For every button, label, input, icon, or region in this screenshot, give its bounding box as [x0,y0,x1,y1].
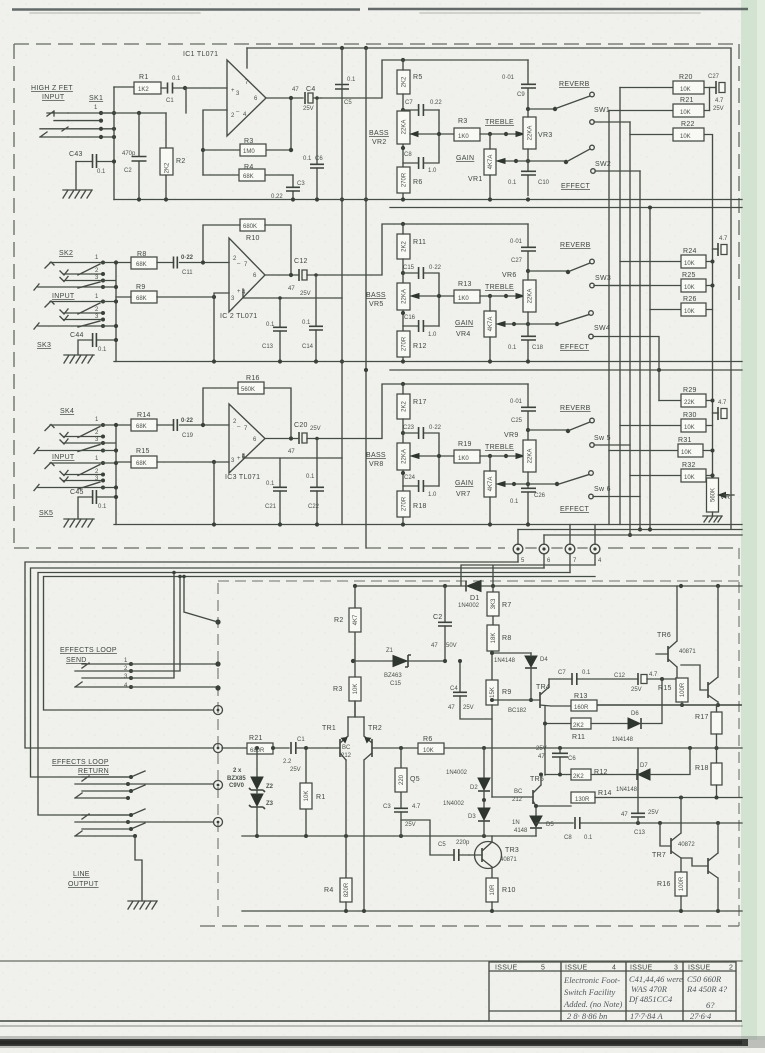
svg-text:47: 47 [538,754,545,760]
svg-text:REVERB: REVERB [559,81,590,88]
svg-text:47: 47 [288,286,295,292]
wire vertical feed x609 [608,111,610,525]
switch SW4 [559,315,589,325]
frame: separator dashed line between sections [14,547,739,549]
svg-text:C4: C4 [306,86,316,93]
frame: upper section dashed border [14,43,738,45]
resistor R5b 220R [400,748,402,808]
svg-text:40871: 40871 [500,857,517,863]
svg-text:0.1: 0.1 [98,347,107,353]
svg-text:EFFECT: EFFECT [560,344,589,351]
svg-text:C18: C18 [532,345,544,351]
svg-text:4.7: 4.7 [715,98,724,104]
svg-text:R17: R17 [695,714,709,721]
svg-text:C23: C23 [403,425,415,431]
svg-text:10K: 10K [353,684,359,695]
svg-text:BC: BC [514,789,523,795]
svg-text:TREBLE: TREBLE [485,444,514,451]
svg-text:R18: R18 [413,503,427,510]
svg-text:C19: C19 [182,433,194,439]
node module b [215,661,220,666]
svg-text:SW1: SW1 [594,107,610,114]
title block frame [489,962,736,1021]
svg-text:SK4: SK4 [60,408,74,415]
svg-text:1K0: 1K0 [458,134,469,140]
svg-text:4.7: 4.7 [649,672,658,678]
wire reverb bus line [518,529,742,531]
svg-text:Switch Facility: Switch Facility [564,987,615,997]
svg-text:TREBLE: TREBLE [485,284,514,291]
svg-text:220: 220 [399,774,405,785]
svg-text:2: 2 [729,965,733,972]
svg-text:47: 47 [292,87,299,93]
svg-text:1N4148: 1N4148 [612,737,634,743]
svg-text:22KA: 22KA [402,289,408,304]
svg-text:25V: 25V [648,810,659,816]
svg-text:BZ463: BZ463 [384,673,402,679]
svg-text:27·6·4: 27·6·4 [690,1011,712,1021]
svg-text:4.7: 4.7 [719,236,728,242]
svg-text:17·7·84 A: 17·7·84 A [630,1011,663,1021]
svg-text:68K: 68K [243,174,254,180]
svg-text:2K2: 2K2 [402,401,408,412]
svg-text:270R: 270R [402,336,408,351]
wire bus line d [38,573,570,816]
svg-text:TR6: TR6 [657,632,671,639]
svg-text:BC182: BC182 [508,708,527,714]
connector circle p1 [214,706,223,715]
svg-text:25V: 25V [463,705,474,711]
svg-text:R11: R11 [413,239,426,246]
wire vertical feed x650 [649,208,651,530]
svg-text:C13: C13 [262,344,274,350]
capacitor C3b 4.7/25V [394,808,408,812]
wire vertical feed x630 [629,122,631,535]
wire D4 feed [492,651,531,680]
svg-text:TR1: TR1 [322,725,336,732]
svg-text:C15: C15 [390,681,402,687]
svg-text:R3: R3 [333,686,343,693]
svg-text:R14: R14 [137,412,151,419]
wire pin4 line ch3 [243,454,342,458]
svg-text:C50 660R: C50 660R [687,974,722,984]
wire row1 rail [101,112,166,114]
connector circle p2 [214,744,223,753]
svg-text:GAIN: GAIN [455,320,473,327]
wire VR9 bottom [527,472,529,488]
svg-text:C45: C45 [70,489,84,496]
svg-text:ISSUE: ISSUE [630,965,653,972]
svg-text:2K2: 2K2 [402,241,408,252]
svg-text:3: 3 [674,965,678,972]
wire to op-amp +in [185,88,227,113]
svg-text:R31: R31 [678,437,692,444]
wire to SW3 [528,270,566,272]
wire return to module circles [128,821,213,823]
svg-text:+: + [237,456,241,462]
svg-text:10K: 10K [681,450,692,456]
svg-text:1.0: 1.0 [428,492,437,498]
svg-text:4K7A: 4K7A [488,155,494,170]
svg-text:Electronic Foot-: Electronic Foot- [563,975,620,985]
svg-text:68K: 68K [136,461,147,467]
svg-text:0·01: 0·01 [510,239,523,245]
resistor R9b [486,680,498,705]
resistor R1b 10K [305,748,307,836]
svg-text:C3: C3 [383,804,391,810]
wire input bus vertical [113,87,115,200]
svg-text:4K7: 4K7 [353,614,359,625]
svg-text:1N: 1N [512,820,520,826]
svg-text:D7: D7 [640,763,648,769]
svg-text:0·22: 0·22 [181,418,194,424]
wire to SW1 [528,108,553,110]
resistor R12 [397,331,410,357]
svg-text:IC1 TL071: IC1 TL071 [183,51,218,58]
svg-text:C10: C10 [538,180,550,186]
svg-text:22KA: 22KA [528,449,534,464]
wire feedback loop ch3 [203,388,291,439]
svg-text:R10: R10 [246,235,260,242]
svg-text:4.7: 4.7 [718,400,727,406]
node A [183,86,187,90]
svg-text:0·22: 0·22 [429,265,442,271]
svg-text:IC 2 TL071: IC 2 TL071 [220,313,258,320]
svg-text:C22: C22 [308,504,320,510]
svg-text:R26: R26 [683,296,697,303]
capacitor C26 [527,493,529,525]
connector pin 6 [543,535,545,568]
jack J2b [34,301,101,329]
svg-text:C11: C11 [182,270,193,276]
svg-text:0·22: 0·22 [429,425,442,431]
svg-text:Df 4851CC4: Df 4851CC4 [628,994,673,1004]
svg-text:25V: 25V [310,426,321,432]
wire feedback loop ch2 [203,225,291,275]
svg-text:1N4002: 1N4002 [458,603,480,609]
svg-text:SK5: SK5 [39,510,53,517]
wire jack bus ch2 [103,263,131,362]
svg-text:D3: D3 [468,814,476,820]
capacitor C21 [279,458,281,525]
diode D2 1N4002 [483,748,485,778]
svg-text:GAIN: GAIN [455,480,473,487]
capacitor C18 [527,341,529,362]
switch SW2 [564,160,568,164]
svg-text:25V: 25V [405,822,416,828]
svg-text:VR8: VR8 [369,461,384,468]
svg-text:47: 47 [431,643,438,649]
svg-text:68K: 68K [136,424,147,430]
wire output ch2 [265,224,528,275]
resistor R7 [492,586,494,625]
capacitor C27 0.01 [527,224,529,280]
svg-text:212: 212 [341,753,352,759]
svg-text:Sw 5: Sw 5 [594,435,611,442]
svg-text:47: 47 [448,705,455,711]
wire line output to ground [135,836,142,901]
capacitor C12b 4.7/25V [637,673,639,685]
resistor R11 [397,234,410,259]
svg-text:0.1: 0.1 [306,474,315,480]
svg-text:C15: C15 [403,265,415,271]
jack J5a return (switched) [75,776,131,798]
svg-text:1K2: 1K2 [138,87,149,93]
svg-text:C8: C8 [564,835,572,841]
svg-text:10K: 10K [684,309,695,315]
svg-text:R22: R22 [681,121,695,128]
svg-text:OUTPUT: OUTPUT [68,881,99,888]
right green scan band [741,0,765,1040]
svg-text:R15: R15 [136,448,150,455]
resistor R10 680K [240,219,265,231]
svg-text:C41,44,46 were: C41,44,46 were [629,974,683,984]
svg-text:5: 5 [541,965,545,972]
svg-text:130R: 130R [575,797,590,803]
capacitor C1 [161,87,185,89]
resistor R10c 10R [486,878,498,902]
svg-text:10K: 10K [680,110,691,116]
svg-text:C16: C16 [404,315,416,321]
svg-text:R3: R3 [458,118,468,125]
svg-text:1.0: 1.0 [428,332,437,338]
svg-text:C27: C27 [511,258,523,264]
svg-text:R21: R21 [680,97,694,104]
node module a [215,619,220,624]
jack J3b switch levers [78,465,100,490]
svg-text:40871: 40871 [679,649,696,655]
svg-text:VR4: VR4 [456,331,471,338]
svg-text:10K: 10K [680,87,691,93]
wire VR3 bottom to effect node [527,149,529,171]
svg-text:47: 47 [621,812,628,818]
svg-text:C2: C2 [124,168,132,174]
svg-text:22K: 22K [684,400,695,406]
svg-text:R32: R32 [682,462,696,469]
svg-text:R18: R18 [695,765,709,772]
svg-text:C8: C8 [404,152,412,158]
svg-text:Z3: Z3 [266,801,274,807]
wire -in feedback [203,110,227,175]
node module c [215,685,220,690]
zener Z3 [251,794,263,806]
svg-text:1K0: 1K0 [458,456,469,462]
svg-text:R25: R25 [682,272,696,279]
capacitor C7b 0.1 [549,678,638,680]
resistor R4c 820R [345,760,347,878]
wire emitters join [348,701,364,717]
wire pin7 supply stub [246,48,248,68]
svg-text:0.1: 0.1 [266,481,275,487]
svg-text:R17: R17 [413,399,427,406]
diode D6 1N4148 [628,718,640,729]
svg-text:0.1: 0.1 [510,499,519,505]
wire output line [321,60,528,98]
svg-text:TR5: TR5 [530,776,544,783]
svg-text:C5: C5 [438,842,446,848]
svg-text:6?: 6? [706,1000,715,1010]
svg-text:4: 4 [612,965,616,972]
svg-text:0.1: 0.1 [266,322,275,328]
svg-text:C9V0: C9V0 [229,783,245,789]
svg-text:C5: C5 [344,100,352,106]
svg-text:HIGH Z FET: HIGH Z FET [31,85,73,92]
capacitor C4b 47/25V [460,661,492,719]
resistor R17 [397,394,410,419]
svg-text:25V: 25V [536,746,547,752]
potentiometer VR9 22KA [516,454,524,459]
jack J3a switch levers [78,427,100,452]
svg-text:BZX85: BZX85 [227,776,246,782]
capacitor C8c 0.1 [536,822,742,824]
svg-text:R9: R9 [502,689,512,696]
svg-text:C6: C6 [568,756,576,762]
svg-text:R14: R14 [598,790,612,797]
svg-text:R16: R16 [657,881,671,888]
svg-text:C43: C43 [69,151,83,158]
svg-text:0.1: 0.1 [303,156,312,162]
svg-text:REVERB: REVERB [560,405,591,412]
wire C43 to ground [75,162,77,191]
svg-text:25V: 25V [300,291,311,297]
svg-text:100R: 100R [680,682,686,697]
jack J2a switch levers [78,264,100,288]
svg-text:560K: 560K [711,488,717,502]
wire vertical feed x640 [639,171,641,530]
wire to SW5 [528,429,566,431]
wire output node [266,98,303,150]
svg-text:25V: 25V [631,687,642,693]
svg-text:Z2: Z2 [266,784,274,790]
svg-text:10K: 10K [684,285,695,291]
svg-text:10K: 10K [684,425,695,431]
svg-text:R1: R1 [139,74,149,81]
svg-text:IC3 TL071: IC3 TL071 [225,474,260,481]
svg-text:1M0: 1M0 [243,149,255,155]
svg-text:R6: R6 [413,179,423,186]
svg-text:VR9: VR9 [504,432,519,439]
svg-text:0·01: 0·01 [502,75,515,81]
wire VR6 bottom [527,312,529,336]
svg-text:ISSUE: ISSUE [565,965,588,972]
svg-text:R1: R1 [316,794,326,801]
svg-text:BASS: BASS [369,130,389,137]
svg-text:680K: 680K [243,224,257,230]
frame: lower module dashed border [217,583,219,921]
capacitor C6 [316,98,318,200]
wire channel3 bottom bus [114,524,742,526]
svg-text:C12: C12 [614,673,626,679]
ground ch2 [64,355,94,363]
svg-text:C7: C7 [558,670,566,676]
svg-text:R4: R4 [324,887,334,894]
svg-text:22KA: 22KA [402,120,408,135]
svg-text:+: + [237,289,241,295]
svg-text:10K: 10K [684,475,695,481]
svg-text:10R: 10R [490,884,496,896]
svg-text:SK1: SK1 [89,95,103,102]
svg-text:R20: R20 [679,74,693,81]
jack J1a [47,111,68,121]
svg-text:C3: C3 [297,181,305,187]
wire base line long [444,747,742,749]
potentiometer VR10 [707,478,719,512]
svg-text:2K2: 2K2 [573,774,584,780]
svg-text:SK3: SK3 [37,342,51,349]
svg-text:212: 212 [512,797,523,803]
svg-text:LINE: LINE [73,871,90,878]
svg-text:1N4148: 1N4148 [494,658,516,664]
svg-text:Q5: Q5 [410,776,420,783]
svg-text:D1: D1 [470,595,480,602]
ground [63,190,92,198]
ground ch3 [64,519,94,527]
svg-text:4148: 4148 [514,828,528,834]
svg-text:2 8· 8·86 bn: 2 8· 8·86 bn [567,1011,607,1021]
svg-text:0.1: 0.1 [508,180,517,186]
connector pin 4 [594,525,596,566]
svg-text:INPUT: INPUT [52,293,75,300]
diode D7 1N4148 [638,769,650,780]
svg-text:47: 47 [288,449,295,455]
svg-text:R12: R12 [413,343,427,350]
svg-text:3K3: 3K3 [491,598,497,609]
svg-text:1N4002: 1N4002 [446,770,468,776]
wire bottom rail [242,910,742,912]
wire output rail [597,704,742,706]
svg-text:VR1: VR1 [468,176,483,183]
svg-text:VR6: VR6 [502,272,517,279]
connector pin 5 [517,530,519,563]
svg-text:0.1: 0.1 [302,320,311,326]
wire +in stub ch3 [214,462,229,525]
node jack contacts [99,111,103,115]
svg-text:TREBLE: TREBLE [485,119,514,126]
svg-text:C21: C21 [265,504,277,510]
svg-text:D4: D4 [540,657,548,663]
svg-text:R5: R5 [413,74,423,81]
svg-text:SEND: SEND [66,657,87,664]
svg-text:160R: 160R [574,705,589,711]
svg-text:C13: C13 [634,830,646,836]
jack J5b return lower [75,814,135,836]
capacitor C2b 47/50V [444,586,446,661]
wire SW2 out [595,170,640,172]
wire TR4 emitter chain [544,706,546,775]
svg-text:220p: 220p [456,840,470,846]
svg-text:R19: R19 [458,441,472,448]
svg-text:TR3: TR3 [505,847,519,854]
capacitor C13 [279,298,281,362]
svg-text:0.1: 0.1 [347,77,356,83]
svg-text:2 x: 2 x [233,768,242,774]
capacitor C3 [292,175,294,200]
svg-text:C1: C1 [166,98,174,104]
jack J3a [34,425,101,454]
switch SW6 [559,475,589,485]
ground line output [128,901,157,909]
svg-text:C2: C2 [433,614,443,621]
wire jack rows to bus [62,113,114,137]
svg-text:18K: 18K [491,633,497,644]
svg-text:C27: C27 [708,74,720,80]
wire SW1 out [594,121,630,123]
resistor R5 [397,70,410,94]
svg-text:0.1: 0.1 [584,835,593,841]
svg-text:D2: D2 [470,785,478,791]
wire supply rail top [247,48,731,529]
svg-text:68K: 68K [136,262,147,268]
